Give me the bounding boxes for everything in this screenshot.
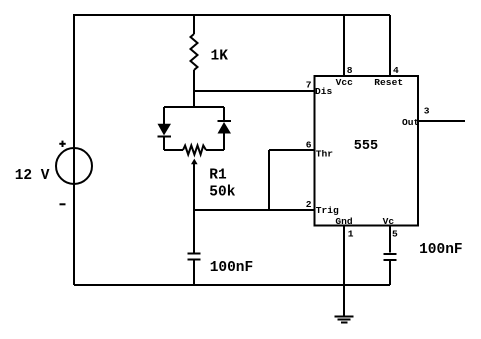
svg-text:1: 1 — [348, 229, 354, 240]
svg-text:2: 2 — [306, 199, 312, 210]
svg-text:Vc: Vc — [383, 216, 395, 227]
svg-text:5: 5 — [392, 229, 398, 240]
svg-text:1K: 1K — [211, 49, 229, 65]
svg-text:8: 8 — [347, 65, 353, 76]
svg-text:Out: Out — [402, 117, 419, 128]
svg-text:R1: R1 — [209, 168, 227, 184]
svg-text:Gnd: Gnd — [335, 216, 353, 227]
svg-text:555: 555 — [354, 139, 378, 154]
svg-text:Reset: Reset — [374, 77, 403, 88]
svg-text:Thr: Thr — [316, 149, 334, 160]
svg-text:6: 6 — [306, 139, 312, 150]
svg-text:Dis: Dis — [315, 86, 333, 97]
svg-text:100nF: 100nF — [210, 260, 254, 276]
svg-text:100nF: 100nF — [419, 242, 463, 258]
svg-text:50k: 50k — [209, 185, 235, 201]
svg-text:12 V: 12 V — [15, 168, 50, 184]
svg-text:3: 3 — [424, 106, 430, 117]
svg-text:4: 4 — [393, 65, 399, 76]
svg-text:Trig: Trig — [316, 205, 339, 216]
svg-text:Vcc: Vcc — [336, 77, 354, 88]
svg-text:7: 7 — [306, 80, 312, 91]
